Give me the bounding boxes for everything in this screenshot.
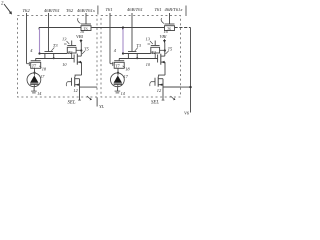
column tick mark right edge (185, 6, 187, 17)
column line below left cell border (96, 97, 98, 106)
svg-text:46B/T61x: 46B/T61x (77, 8, 95, 13)
svg-text:T62: T62 (23, 8, 31, 13)
svg-text:2: 2 (1, 2, 4, 7)
row line of right cell to VL bus (163, 86, 191, 88)
rail exit to VL bus (175, 27, 191, 29)
svg-text:46B/T61: 46B/T61 (127, 7, 143, 12)
rail continuation through gap (92, 27, 123, 29)
VL bus vertical (190, 28, 192, 113)
svg-text:YL: YL (99, 104, 105, 109)
left pixel cell (18, 13, 98, 106)
svg-text:46B/T61: 46B/T61 (44, 8, 60, 13)
right pixel cell (101, 13, 181, 106)
svg-text:T61: T61 (106, 7, 113, 12)
svg-text:T62: T62 (66, 8, 74, 13)
svg-text:V6: V6 (184, 111, 190, 116)
column tick mark between cells (97, 6, 99, 15)
node dot on rail in right cell (122, 26, 124, 28)
junction dot row/VL (189, 86, 191, 88)
svg-text:46B/T61x: 46B/T61x (165, 7, 183, 12)
svg-text:T61: T61 (155, 7, 162, 12)
